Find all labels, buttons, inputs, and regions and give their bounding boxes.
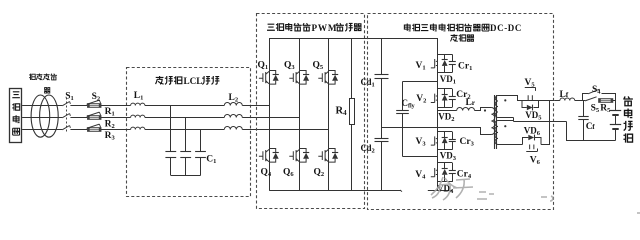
svg-text:DC-DC: DC-DC: [490, 23, 522, 33]
transformer T2 secondary upper winding: [495, 96, 498, 118]
wire DC bottom bus: [269, 190, 401, 192]
capacitor Cd1 upper DC-link: [381, 38, 383, 75]
flying capacitor Cfly: [402, 82, 404, 111]
inductor L1 phase C: [131, 127, 145, 129]
capacitor C1 phase C branch: [200, 130, 202, 152]
wire DC bottom bus right segment: [428, 190, 453, 192]
inductor L2 phase A: [224, 103, 242, 106]
resistor R5: [599, 99, 613, 103]
IGBT Q1: [259, 72, 266, 83]
capacitor C1 phase B branch: [185, 118, 187, 152]
isolation transformer T1 windings: [31, 95, 50, 137]
wire secondary bottom terminal to V6: [498, 144, 523, 146]
wire DC-DC switch column: [437, 38, 439, 190]
IGBT Q6: [289, 150, 296, 161]
MOSFET V2 with body diode VD2 and capacitor Cr2: [438, 88, 453, 90]
wire C1 star point bus: [171, 175, 201, 177]
title 三相电压型PWM整流器: [267, 24, 275, 30]
transformer T2 core: [494, 95, 496, 149]
wire switch midpoint to resonant inductor: [438, 110, 457, 112]
resistor R1 with bypass switch S2 on phase A: [88, 104, 102, 108]
wire phase C into filter: [101, 129, 131, 131]
wire DC bottom bus watermark tail: [400, 190, 402, 192]
wire center tap to output negative: [514, 121, 567, 123]
inductor Lf output filter: [554, 100, 560, 102]
switch S4 bypass branch: [583, 94, 616, 101]
inductor L2 phase B: [224, 115, 242, 118]
MOSFET V1 with body diode VD1 and capacitor Cr1: [438, 54, 453, 56]
wire phase B L1 to L2: [145, 117, 224, 119]
battery 蓄电池组 cells: [615, 101, 617, 111]
switch S1 gang dashed link: [66, 98, 68, 133]
watermark strokes: [431, 177, 640, 213]
IGBT Q4: [259, 150, 266, 161]
wire phase C from grid to transformer: [22, 129, 62, 131]
svg-text:PWM: PWM: [312, 23, 338, 33]
dashed box AC-side LCL filter 交流侧LCL滤波: [127, 68, 251, 197]
switch S1 (three-pole) blades: [62, 102, 69, 106]
IGBT Q2: [318, 150, 325, 161]
wire R5 to battery post: [613, 100, 616, 102]
wire phase C S1 to R3: [70, 129, 87, 131]
dashed box three-phase voltage PWM rectifier 三相电压型PWM整流器: [257, 14, 365, 209]
wire Lf to node A: [575, 100, 585, 102]
wire V6 output up to positive rail: [541, 101, 550, 145]
inductor L2 phase C: [224, 127, 242, 130]
wire phase B S1 to R2: [70, 117, 87, 119]
wire phase A into filter: [101, 105, 131, 107]
transformer T2 secondary lower polarity dot: [504, 125, 506, 127]
capacitor Cf output filter: [583, 101, 585, 117]
IGBT Q5: [318, 72, 325, 83]
wire V1-V2 node to flying capacitor top: [403, 81, 438, 83]
capacitor C1 phase A branch: [170, 106, 172, 152]
title 半桥三电平推挽式双向DC-DC line1: [404, 24, 410, 31]
wire phase C L1 to L2: [145, 129, 224, 131]
node grid box 三相电网 (three-phase grid): [10, 89, 22, 143]
wire V5 output to DC output positive: [522, 100, 554, 102]
resistor R2 with bypass switch on phase B: [88, 116, 102, 120]
wire DC midpoint to transformer primary bottom: [382, 128, 492, 135]
transformer T2 primary winding: [491, 108, 494, 135]
transformer T2 secondary lower winding: [495, 121, 498, 145]
capacitor Cd2 lower DC-link: [375, 138, 389, 140]
wire secondary top terminal to V5: [498, 96, 522, 101]
MOSFET V5 with body diode VD5: [525, 87, 536, 89]
inductor L1 phase B: [131, 115, 145, 117]
transformer T2 secondary upper polarity dot: [504, 99, 506, 101]
inductor L1 phase A: [131, 103, 145, 105]
wire phase C to rectifier leg 3: [242, 129, 328, 131]
wire phase A L1 to L2: [145, 105, 224, 107]
wire rectifier leg 3: [328, 38, 330, 190]
switch S5 blade on main wire: [585, 97, 597, 101]
wire rectifier leg 1: [269, 38, 271, 190]
title 交流侧LCL滤波: [156, 76, 164, 84]
IGBT Q3: [289, 72, 296, 83]
wire phase B from grid to transformer: [22, 117, 62, 119]
MOSFET V4 with body diode VD4 and capacitor Cr4: [438, 162, 453, 164]
svg-text:LCL: LCL: [184, 76, 203, 86]
resistor R4 on DC link: [351, 38, 353, 99]
wire output negative to battery bottom: [567, 122, 616, 141]
label 隔离变压器 (isolation transformer): [29, 74, 35, 80]
wire flying capacitor bottom to V3-V4 node: [403, 156, 438, 158]
wire phase B into filter: [101, 117, 131, 119]
wire Lr to transformer primary top: [475, 108, 492, 111]
inductor Lr resonant: [457, 108, 475, 111]
wire secondary center tap join: [498, 118, 514, 122]
wire phase B to rectifier leg 2: [242, 117, 299, 119]
MOSFET V3 with body diode VD3 and capacitor Cr3: [438, 131, 453, 133]
wire phase A to rectifier leg 1: [242, 105, 269, 107]
wire phase A from grid to transformer: [22, 105, 62, 107]
resistor R3 with bypass switch on phase C: [88, 128, 102, 132]
transformer T2 primary polarity dot: [484, 109, 486, 111]
title 变换器 line2: [450, 34, 457, 41]
label 蓄电池组: [623, 96, 633, 105]
wire rectifier leg 2: [299, 38, 301, 190]
wire DC top bus: [269, 38, 438, 40]
wire phase A S1 to S2: [70, 105, 87, 107]
MOSFET V6 with body diode VD6: [526, 151, 537, 153]
dashed box half-bridge three-level push-pull bidirectional DC-DC converter: [368, 14, 554, 210]
